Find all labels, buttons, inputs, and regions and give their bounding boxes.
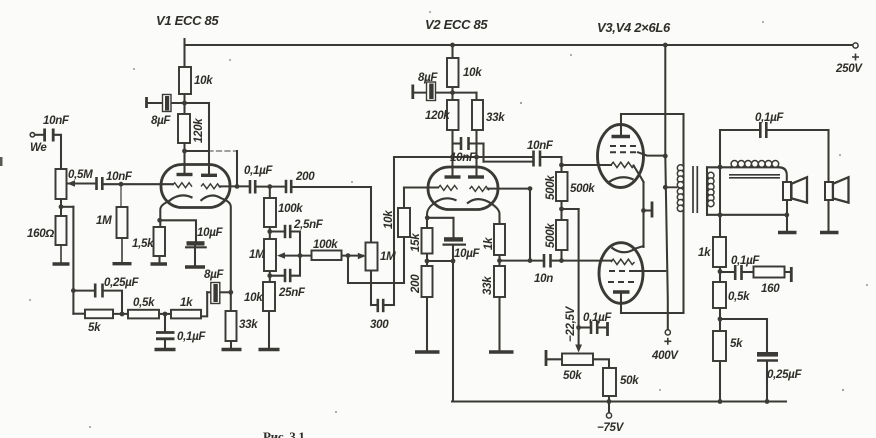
resistor 1k output xyxy=(713,237,726,267)
wire node to 0.1uF gnd cap xyxy=(164,314,166,331)
wire V2 1k/33k node to ground xyxy=(498,255,500,351)
svg-text:0,5M: 0,5M xyxy=(68,169,93,181)
wire V2 cathode1 node down 200 to ground xyxy=(426,254,428,351)
V1 grid2 zigzag xyxy=(201,184,221,189)
svg-text:10k: 10k xyxy=(244,292,263,304)
svg-text:1M: 1M xyxy=(249,249,265,261)
wire voice coil baseline xyxy=(731,166,779,168)
electrolytic 0.25uF output xyxy=(757,352,778,357)
svg-text:0,1µF: 0,1µF xyxy=(583,312,612,324)
svg-text:10nF: 10nF xyxy=(450,152,477,164)
node screen V3 xyxy=(663,154,668,159)
electrolytic 8uF V1 top xyxy=(163,95,172,112)
wire V2 grid2 lead xyxy=(488,188,531,190)
choke voice coil loops xyxy=(731,161,779,168)
terminal bar 50k left xyxy=(545,350,548,366)
wire 50k bottom to -75V terminal xyxy=(608,396,610,413)
wire 1k right up to 8uF xyxy=(201,292,207,316)
svg-text:5k: 5k xyxy=(730,338,743,350)
wire V2 cathode2 lead xyxy=(492,204,500,224)
wire 0.1uF coupling to 200pF xyxy=(256,186,286,188)
wire input lead We to C-10nF xyxy=(35,134,43,136)
wire V2 33k branch riser xyxy=(475,93,477,177)
transformer core xyxy=(693,166,697,213)
ground under 10uF xyxy=(185,265,205,268)
wire node to 1M grid leak xyxy=(120,184,122,207)
wire grid2 riser xyxy=(236,151,238,186)
capacitor 0.25uF xyxy=(95,284,102,298)
resistor 100k vertical xyxy=(264,198,276,227)
node 25nF tap xyxy=(267,273,272,278)
node anode1 V2 xyxy=(450,155,455,160)
wire 200pF cap to 1M V2 top riser xyxy=(292,187,371,243)
wire output node riser to 0.1uF xyxy=(719,130,721,237)
wire 33k step down xyxy=(482,144,484,162)
node 2.5nF tap xyxy=(267,229,272,234)
node fb riser bottom xyxy=(528,258,533,263)
ground under 0.1uF xyxy=(155,348,176,351)
node 100k left xyxy=(298,253,303,258)
node cathode1 top V2 xyxy=(425,215,430,220)
resistor 10k V2 anode xyxy=(447,58,459,87)
resistor 33k V2 top xyxy=(472,100,483,130)
wire 300pF left lead xyxy=(371,304,377,306)
wire 0.1uF out left lead xyxy=(720,129,760,131)
resistor 500k lower xyxy=(556,220,568,250)
wire bridge cap right lead xyxy=(470,142,484,144)
node secondary bottom xyxy=(718,213,723,218)
node secondary top xyxy=(718,165,723,170)
svg-text:V2 ECC 85: V2 ECC 85 xyxy=(425,17,488,32)
margin mark left edge xyxy=(0,157,3,166)
node cathode bus xyxy=(641,208,646,213)
capacitor 25nF xyxy=(285,269,290,282)
tube V4 6L6 envelope xyxy=(599,243,643,304)
node rail B+ xyxy=(663,43,668,48)
capacitor 2.5nF xyxy=(285,225,290,238)
node centre tap xyxy=(663,185,668,190)
V1 grid1 zigzag xyxy=(173,183,193,188)
node anode1 V1 xyxy=(182,149,187,154)
node -75V rail xyxy=(607,399,612,404)
svg-text:200: 200 xyxy=(410,274,422,294)
wire 10nF out right lead xyxy=(542,157,562,165)
capacitor 0.1uF across output xyxy=(760,122,766,138)
resistor 1k V2 xyxy=(494,224,505,255)
resistor 50k vertical xyxy=(603,368,616,396)
node 1k/0.5k output xyxy=(718,269,723,274)
node grid2 V1 xyxy=(235,184,240,189)
ground under 10k V1 xyxy=(259,348,280,351)
svg-text:0,1µF: 0,1µF xyxy=(755,112,784,124)
wire V2 decouple node row xyxy=(415,92,477,94)
wire V2 cathode1 lead xyxy=(427,204,433,228)
wire stub above rail start xyxy=(183,39,185,45)
wire 2.5nF tap lead xyxy=(270,230,285,232)
svg-text:0,25µF: 0,25µF xyxy=(104,277,140,289)
wire V2 10k to 120k plate1 lead xyxy=(451,87,453,177)
svg-text:1k: 1k xyxy=(180,297,193,309)
wire 8uF right lead to cathode2 line xyxy=(219,291,231,293)
svg-text:10k: 10k xyxy=(194,75,213,87)
node 10uF V2 xyxy=(451,259,456,264)
wire C-10nF to down-corner xyxy=(55,135,61,169)
resistor 120k V2 xyxy=(447,100,459,130)
svg-text:300: 300 xyxy=(370,319,389,331)
wire feedback chain 1k/0.5k/5k xyxy=(719,267,721,402)
wire main B+ drop to 400V xyxy=(665,45,668,330)
resistor 160 ohm xyxy=(56,216,67,245)
wire node down ladder 100k/1M/10k xyxy=(269,187,271,282)
V2 cathode arc 1 xyxy=(433,198,457,204)
wire 1.5k to ground xyxy=(158,256,160,263)
wire secondary spine xyxy=(706,167,708,215)
svg-text:250V: 250V xyxy=(835,63,863,75)
resistor 0.5k xyxy=(128,310,159,319)
svg-text:33k: 33k xyxy=(482,276,494,295)
svg-text:1k: 1k xyxy=(698,247,711,259)
node splitter xyxy=(497,258,502,263)
svg-text:50k: 50k xyxy=(563,370,582,382)
wiper arrow 0.5M xyxy=(67,180,75,186)
svg-text:10nF: 10nF xyxy=(527,140,554,152)
wire branch down to NFB node xyxy=(72,207,74,314)
svg-text:8µF: 8µF xyxy=(204,269,224,281)
wire 8uF left lead xyxy=(207,291,212,293)
wire V1 plate2 riser xyxy=(208,103,210,175)
potentiometer 1M feedback xyxy=(264,239,276,271)
wire 0.1uF fb lead xyxy=(720,271,735,273)
wire 1M wiper arrow row left xyxy=(282,255,312,257)
wire V1 cathode2 long riser to 33k xyxy=(221,198,231,311)
wire V3 screen to B+ xyxy=(638,152,665,155)
wire step row to 10nF out xyxy=(484,161,533,163)
node speaker1 bottom xyxy=(784,213,789,218)
input terminal We xyxy=(30,133,34,137)
tube V2 ECC85 envelope xyxy=(428,167,498,210)
capacitor 0.1uF to ground xyxy=(156,333,175,339)
V2 cathode arc 2 xyxy=(467,199,492,204)
svg-text:160: 160 xyxy=(761,283,780,295)
wire 25nF right riser xyxy=(291,256,301,276)
node bias cap xyxy=(576,325,581,330)
potentiometer R 0.5M xyxy=(56,169,67,199)
node 0.5k/5k output xyxy=(718,317,723,322)
ground under 200 xyxy=(415,350,440,353)
capacitor 0.1uF coupling V1 xyxy=(250,180,255,194)
node grid V1 xyxy=(119,182,124,187)
wire V1 cathode1 lead xyxy=(160,201,169,227)
capacitor 200pF xyxy=(286,180,291,193)
svg-text:100k: 100k xyxy=(313,239,338,251)
resistor 1k xyxy=(171,310,201,319)
capacitor 10nF input xyxy=(45,129,54,142)
resistor 5k output xyxy=(713,331,726,361)
node 0.5k/1k xyxy=(163,312,168,317)
node V3 grid xyxy=(559,163,564,168)
svg-text:−22,5V: −22,5V xyxy=(565,305,577,342)
svg-text:0,5k: 0,5k xyxy=(728,291,750,303)
wire grid row into V2 zigzag1 xyxy=(404,186,438,188)
wire R0.5M wiper row to cap xyxy=(68,182,96,184)
node cathode1 V1 xyxy=(157,218,162,223)
node supply V1 xyxy=(182,101,187,106)
wire 25nF left lead xyxy=(270,275,285,277)
svg-text:Рис. 3.1: Рис. 3.1 xyxy=(263,429,305,438)
wire speaker2 drop xyxy=(827,130,829,231)
V3 anode bar xyxy=(612,135,631,138)
node anode2 V2 xyxy=(474,155,479,160)
V2 grid1 zigzag xyxy=(438,185,458,190)
resistor 10k grid divider xyxy=(398,208,410,237)
potentiometer 50k horizontal xyxy=(562,354,593,366)
wire NFB node to 0.25uF xyxy=(73,290,94,292)
V2 anode bar 1 xyxy=(445,175,461,178)
node NFB corner xyxy=(71,288,76,293)
node 5k/0.5k xyxy=(120,312,125,317)
svg-text:120k: 120k xyxy=(425,110,450,122)
ground under 1.5k xyxy=(151,262,168,265)
svg-text:0,1µF: 0,1µF xyxy=(244,165,273,177)
resistor 33k V2 bottom xyxy=(494,266,505,297)
speaker 2 xyxy=(825,182,833,200)
node cathode1 V2 xyxy=(425,259,430,264)
resistor 1M grid leak V1 xyxy=(117,207,128,238)
svg-text:0,5k: 0,5k xyxy=(133,297,155,309)
wire NFB node to 5k left xyxy=(73,313,85,315)
wire primary centre tap xyxy=(665,186,677,188)
wire V4 cathode diagonal xyxy=(636,246,644,249)
wire cathode bus xyxy=(642,182,644,247)
wire 0.5k to 1k xyxy=(159,313,171,315)
V2 anode bar 2 xyxy=(468,175,484,178)
ground under 160 ohm xyxy=(60,245,62,263)
wire V2 cathode1 node to 10uF xyxy=(427,218,453,237)
wire cap 10nF out to V1 grid1 zigzag xyxy=(104,183,173,185)
resistor 5k xyxy=(85,310,113,319)
wire R0.5M bottom to node xyxy=(60,199,62,216)
resistor 15k xyxy=(422,228,433,254)
node rail 5k xyxy=(718,399,723,404)
svg-text:V3,V4 2×6L6: V3,V4 2×6L6 xyxy=(597,20,671,35)
wire transformer primary spine xyxy=(682,114,684,313)
resistor 1.5k xyxy=(154,227,166,256)
V3 control grid zigzag xyxy=(611,162,634,167)
arrow bias line xyxy=(575,345,582,353)
wire 1M V2 bottom to fb row and 300pF xyxy=(370,271,372,306)
wire V2 supply 10k top lead xyxy=(451,45,453,58)
wire 0.25uF bottom to rail xyxy=(766,362,768,402)
wire V3 cathode diagonal xyxy=(634,166,644,183)
svg-text:160Ω: 160Ω xyxy=(27,228,54,240)
wiper arrow 1M feedback xyxy=(277,252,285,258)
V1 cathode arc 2 xyxy=(201,196,222,201)
transformer secondary loops xyxy=(708,172,714,206)
wire V4 screen to B+ xyxy=(631,270,665,272)
V4 control grid zigzag xyxy=(611,259,634,264)
ground speaker 2 xyxy=(820,231,839,234)
resistor 33k V1 xyxy=(226,311,237,341)
resistor 120k V1 xyxy=(178,114,190,143)
wire grid2 feedback riser xyxy=(529,189,531,261)
terminal bar 8uF V2 xyxy=(411,85,414,100)
terminal -75V xyxy=(606,413,611,418)
V4 anode bar xyxy=(613,290,630,293)
resistor 10k V1 bottom xyxy=(263,282,275,311)
capacitor 10n splitter xyxy=(544,254,551,268)
svg-text:8µF: 8µF xyxy=(418,72,438,84)
wire V1 R10k/R120k plate1 lead xyxy=(183,45,185,175)
wire V3 plate to transformer top xyxy=(621,113,684,115)
wire grid node corner to 10k grid divider xyxy=(403,188,405,209)
wire 160 to terminal bar xyxy=(785,271,791,273)
wire V3 grid row xyxy=(562,164,612,166)
wire feedback row 283 xyxy=(348,282,404,284)
node 100k right xyxy=(346,253,351,258)
svg-text:50k: 50k xyxy=(620,375,639,387)
wire 0.1uF cap to ground xyxy=(164,341,166,349)
resistor 100k horizontal xyxy=(312,251,342,261)
capacitor 10nF bridge xyxy=(461,137,469,150)
wire tone node row xyxy=(720,318,767,320)
transformer primary loops xyxy=(677,165,683,212)
svg-text:120k: 120k xyxy=(193,118,205,143)
wire 10n right lead xyxy=(553,260,562,262)
terminal 250V xyxy=(853,43,858,48)
V1 anode bar 1 xyxy=(177,173,193,176)
wire 0.25uF riser xyxy=(766,319,768,353)
wire cathode bar lead xyxy=(644,209,651,211)
wire 0.1uF fb to 160 xyxy=(742,271,754,273)
wire node branch right xyxy=(61,206,73,208)
plus sign 250V xyxy=(852,54,859,61)
wire 50k pot right to 50k resistor xyxy=(593,359,609,368)
V3 cathode arc xyxy=(609,177,634,182)
terminal 400V xyxy=(665,330,670,335)
wire 0.1uF out right lead xyxy=(767,129,829,131)
tube V3 6L6 envelope xyxy=(598,125,644,188)
electrolytic 8uF bottom xyxy=(211,283,220,304)
node 8uF/33k xyxy=(228,290,233,295)
electrolytic 10uF V1 xyxy=(187,241,205,245)
svg-text:8µF: 8µF xyxy=(151,115,171,127)
svg-text:10k: 10k xyxy=(383,210,395,229)
wiper arrow 1M V2 xyxy=(358,253,366,259)
capacitor 0.1uF bias xyxy=(591,321,597,334)
wire 10k V1 bottom to ground xyxy=(268,311,270,348)
wire V4 plate lead xyxy=(620,292,622,313)
svg-text:10µF: 10µF xyxy=(454,248,481,260)
svg-text:1M: 1M xyxy=(96,215,112,227)
wire secondary top to output node xyxy=(707,166,731,168)
wire plate node riser x394 xyxy=(393,157,395,305)
wire V4 grid row xyxy=(562,260,612,262)
wire bias cap to terminal bar xyxy=(598,326,607,328)
svg-text:500k: 500k xyxy=(570,183,595,195)
V4 suppressor dashes xyxy=(608,281,634,283)
wire 50k left terminal lead xyxy=(548,358,562,360)
terminal bar after 160 xyxy=(790,267,793,282)
wire V4 plate bottom row xyxy=(621,312,684,314)
svg-text:−75V: −75V xyxy=(597,422,625,434)
node decouple V2 xyxy=(450,90,455,95)
wire V3 plate lead up xyxy=(620,114,622,137)
wire coil to speaker1 xyxy=(779,167,787,182)
capacitor 300pF xyxy=(378,299,383,312)
node rail 0.25uF xyxy=(765,399,770,404)
svg-text:0,1µF: 0,1µF xyxy=(731,255,760,267)
node grid2 V2 xyxy=(528,186,533,191)
wire 300pF right lead riser xyxy=(384,304,395,306)
svg-text:V1 ECC 85: V1 ECC 85 xyxy=(156,13,219,28)
wire secondary bottom row xyxy=(707,214,787,216)
speaker 1 xyxy=(783,182,791,200)
ground under 1M xyxy=(121,238,123,263)
electrolytic 8uF V2 xyxy=(427,82,436,101)
terminal bar bias cap xyxy=(606,322,609,336)
electrolytic 10uF V2 xyxy=(444,237,463,241)
wire divider mid to bias line xyxy=(562,208,579,210)
wire bias line -22.5V xyxy=(578,209,580,346)
wire 120k bottom row to grid2 riser xyxy=(185,150,209,152)
V3 screen grid dashes xyxy=(610,145,636,147)
resistor 0.5k output xyxy=(713,282,726,308)
resistor 10k V1 anode xyxy=(179,67,191,94)
svg-text:10nF: 10nF xyxy=(43,115,70,127)
cathode terminal bar V3/V4 xyxy=(651,202,654,218)
wire bias cap lead xyxy=(579,326,591,328)
wire bottom bias rail xyxy=(452,400,786,402)
V2 grid2 zigzag xyxy=(470,186,490,191)
resistor 160 horizontal xyxy=(754,267,785,278)
V1 cathode arc 1 xyxy=(169,195,193,201)
svg-text:400V: 400V xyxy=(651,350,679,362)
capacitor 0.1uF feedback xyxy=(735,265,741,280)
potentiometer 1M V2 xyxy=(366,243,378,271)
V3 suppressor dashes xyxy=(610,151,638,153)
wire 10uF to ground xyxy=(194,246,196,266)
svg-text:1,5k: 1,5k xyxy=(132,238,154,250)
node divider mid xyxy=(559,207,564,212)
capacitor 10nF output coupling xyxy=(534,151,541,167)
wire V1 plate supply node row xyxy=(148,102,209,104)
tube V1 ECC85 envelope xyxy=(161,165,230,208)
wire bridge cap left lead xyxy=(453,142,461,144)
terminal bar 8uF V1 xyxy=(145,97,148,108)
ground speaker 1 xyxy=(778,231,797,234)
wire HT+ top rail 250V xyxy=(185,44,856,46)
svg-text:200: 200 xyxy=(295,171,315,183)
svg-text:10nF: 10nF xyxy=(106,171,133,183)
wire splitter node row to 10n cap xyxy=(500,260,544,262)
node V4 grid xyxy=(559,258,564,263)
wire 500k divider riser xyxy=(560,165,562,261)
wire 10k divider bottom xyxy=(403,237,405,283)
svg-text:500k: 500k xyxy=(545,223,557,248)
wire V2 10uF down to bottom rail xyxy=(452,245,454,402)
svg-text:2,5nF: 2,5nF xyxy=(293,219,324,231)
svg-text:25nF: 25nF xyxy=(278,287,306,299)
svg-text:10k: 10k xyxy=(463,67,482,79)
svg-text:10µF: 10µF xyxy=(197,227,224,239)
wire cathode1 node to 10uF xyxy=(160,220,196,241)
resistor 500k upper xyxy=(556,172,568,201)
V4 screen grid dashes xyxy=(609,270,631,272)
resistor 200 V2 cathode xyxy=(422,266,433,297)
ground under 33k V1 xyxy=(222,348,242,351)
plus sign 400V xyxy=(664,338,671,345)
node rail V2 xyxy=(450,43,455,48)
